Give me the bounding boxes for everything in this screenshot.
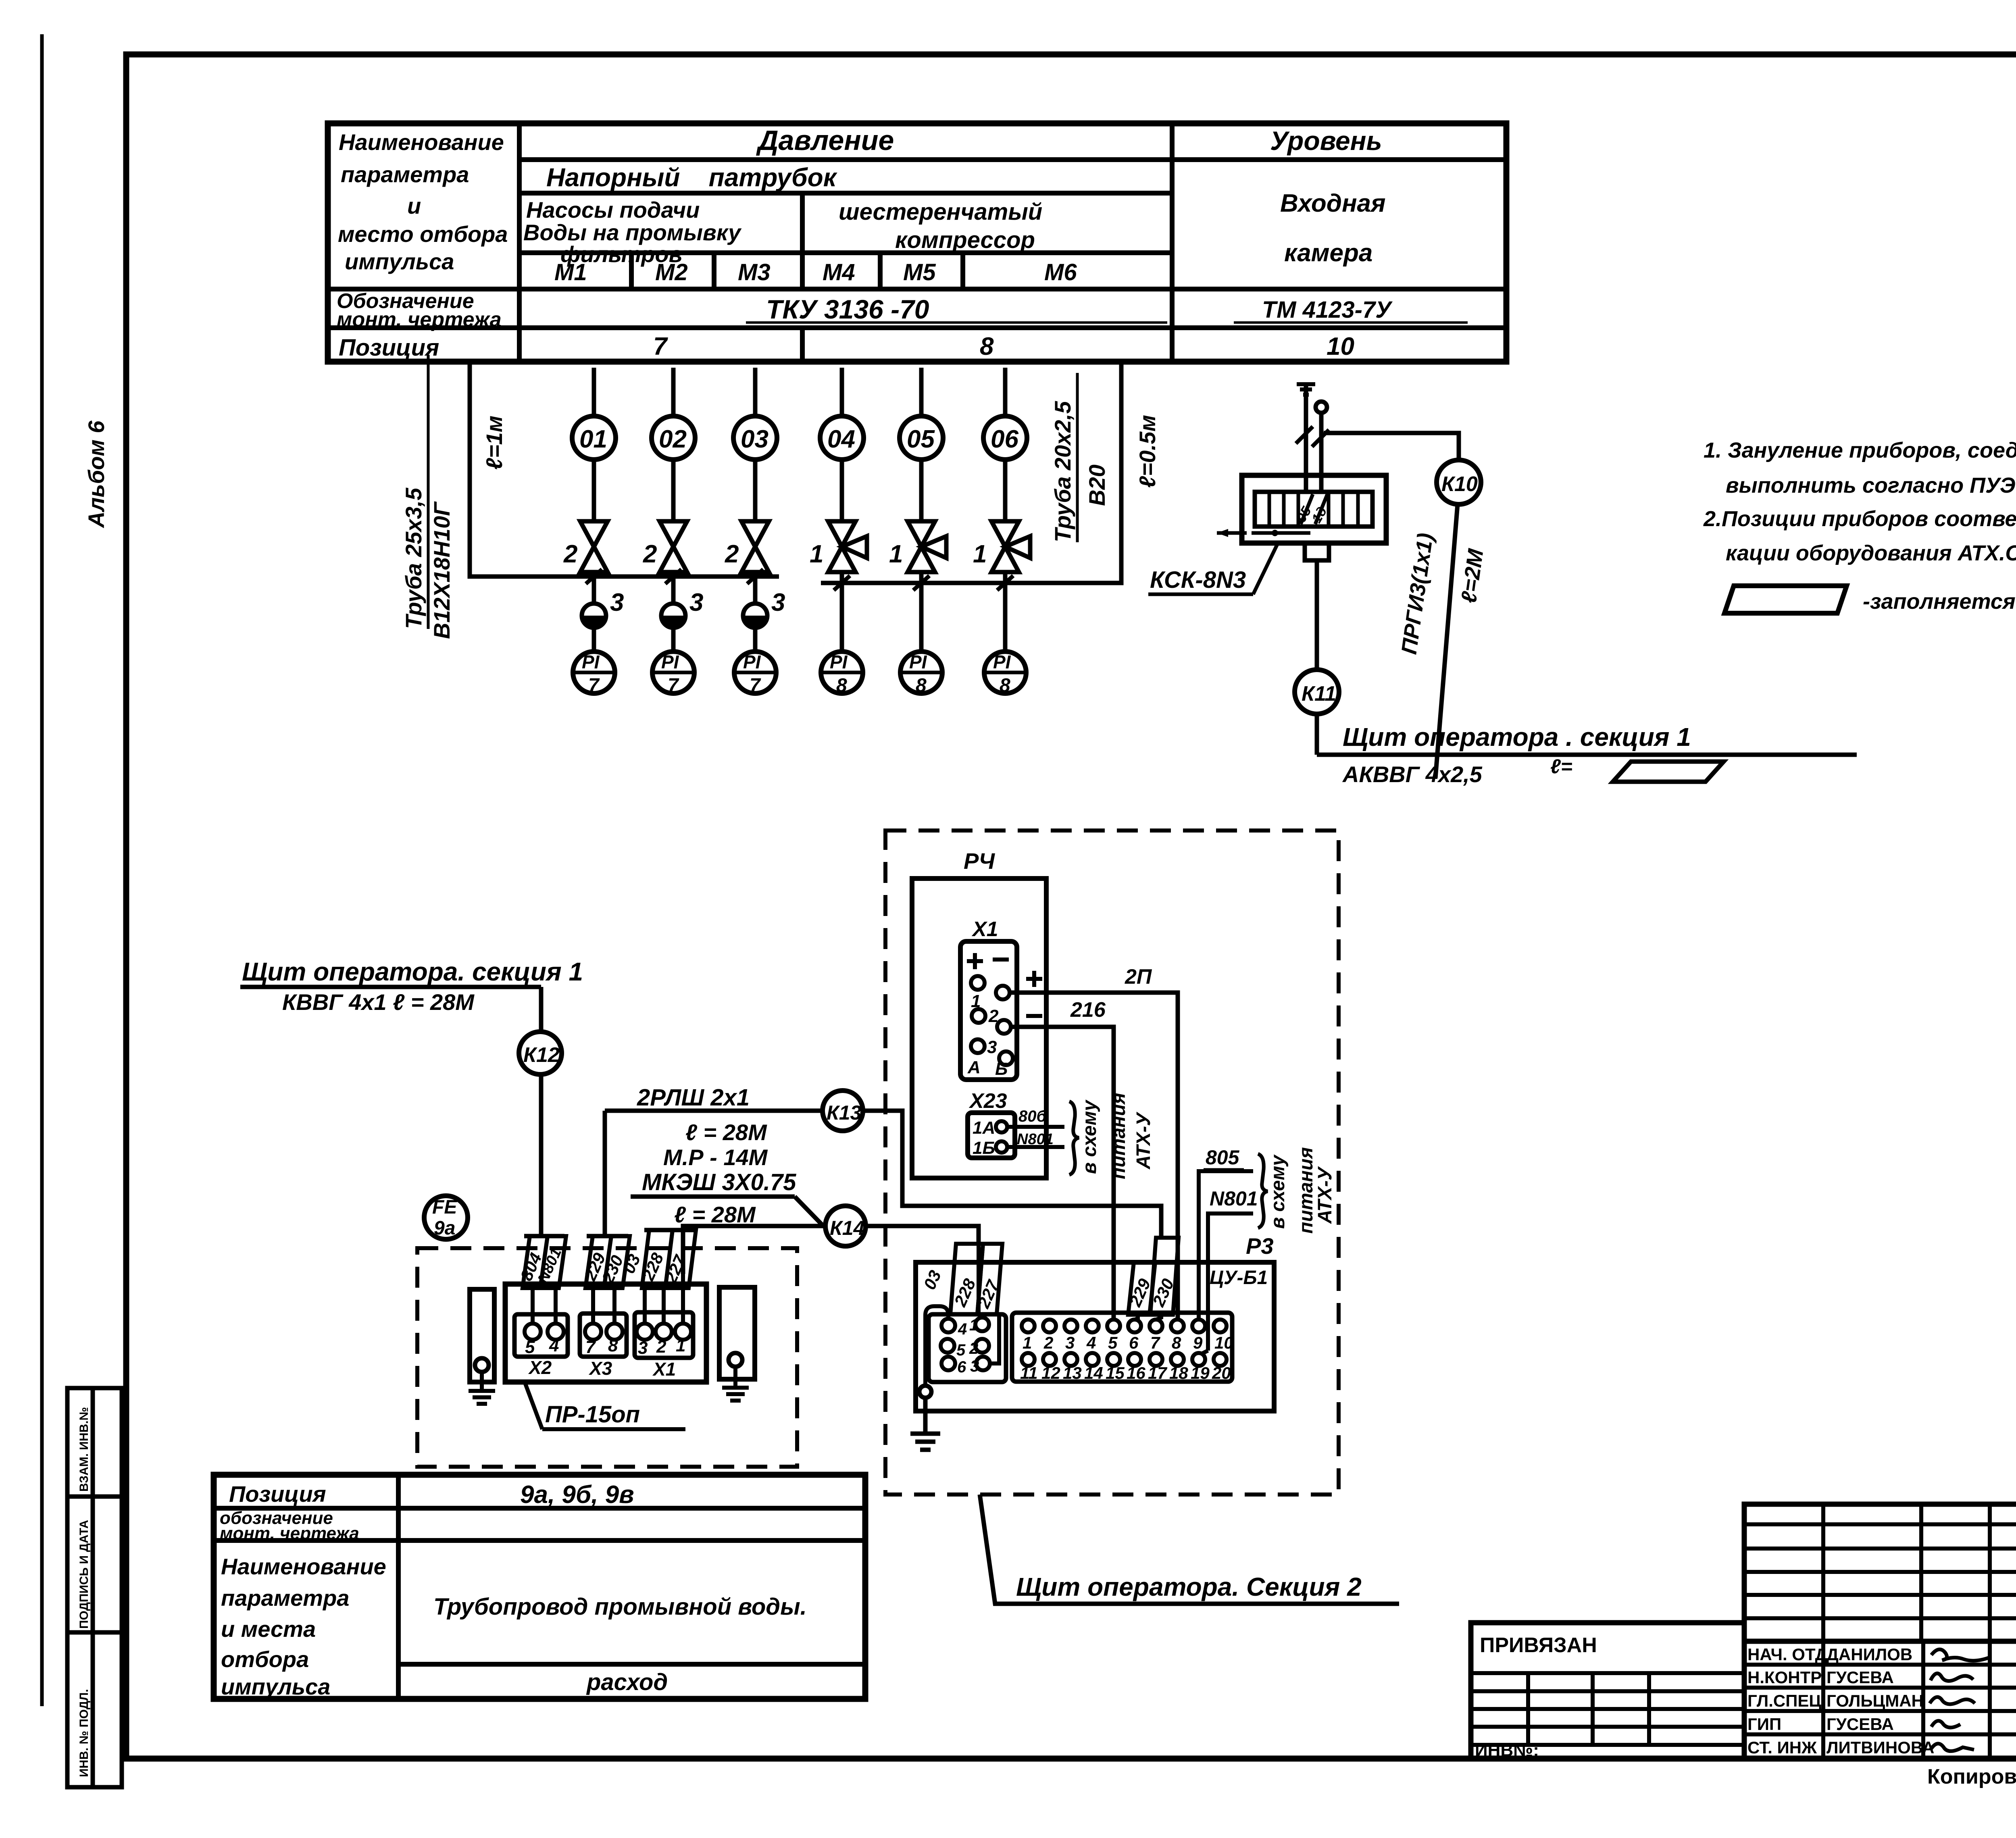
svg-text:216: 216 [1070, 998, 1106, 1022]
right tab ground lead [733, 1367, 737, 1388]
margin stamp boxes [67, 1388, 122, 1787]
junction tick on channel 05 [913, 576, 929, 590]
svg-text:Наименование: Наименование [339, 129, 504, 155]
svg-text:М4: М4 [823, 259, 855, 285]
svg-text:3: 3 [610, 589, 624, 616]
X1 pin out b [999, 1051, 1013, 1065]
instrument circle 03 [733, 416, 777, 460]
wire label 229 (PR side) [580, 1236, 611, 1288]
svg-text:8: 8 [608, 1336, 618, 1355]
wire 229 to X3:7 [591, 1288, 595, 1324]
R3 pin 15 [1107, 1353, 1120, 1366]
RCh unit box [912, 878, 1046, 1178]
R3 pin 6 [1128, 1320, 1141, 1332]
wire N801 to X2:4 [554, 1288, 558, 1324]
svg-text:1: 1 [810, 540, 823, 568]
svg-text:9а: 9а [434, 1218, 455, 1239]
MKESh leader to K14 [795, 1197, 823, 1226]
R3 pin 7 [1150, 1320, 1162, 1332]
wire 2P: X1+ to R3 pin8 [1010, 993, 1178, 1320]
svg-text:ГУСЕВА: ГУСЕВА [1826, 1668, 1894, 1687]
instrument circle 06 [983, 416, 1027, 460]
wire: 02 valve to collector [671, 572, 676, 577]
wire 227 to X1:2 [662, 1288, 666, 1324]
wire: 03 circle to valve [753, 460, 758, 521]
wire: sensor lead into box [1319, 413, 1324, 492]
R3 pin 13 [1064, 1353, 1077, 1366]
svg-text:монт. чертежа: монт. чертежа [220, 1524, 359, 1543]
svg-text:9а, 9б, 9в: 9а, 9б, 9в [520, 1481, 634, 1509]
svg-text:АТХ-У: АТХ-У [1314, 1166, 1336, 1224]
svg-text:-заполняется при привязке прое: -заполняется при привязке проекта. [1863, 589, 2016, 614]
wire 228 to terminal 1 [980, 1314, 982, 1318]
wire: K11 to operator panel line [1315, 714, 1319, 755]
R3 left terminal 1 [975, 1318, 989, 1331]
svg-text:N801: N801 [1017, 1131, 1054, 1148]
valve (3-way) on channel 05 [908, 521, 946, 572]
header col text [338, 129, 508, 274]
cable marker K12 [519, 1032, 562, 1074]
wire: K13 right to R3 [863, 1111, 1161, 1238]
wire 805 from pin9 [1199, 1171, 1253, 1320]
svg-text:8: 8 [1000, 675, 1010, 696]
svg-text:1А: 1А [973, 1118, 995, 1138]
bottom table row line 3 (right col only) [398, 1662, 865, 1667]
sampling device (half-filled circle) channel 02 [661, 604, 685, 628]
revision table grid [1744, 1504, 2016, 1641]
pressure indicator PI 7 channel 03 [734, 652, 776, 696]
wire 228 to X1:3 [643, 1288, 647, 1324]
wire label 229 (R3 side) [1125, 1262, 1155, 1315]
cable marker K10 [1437, 460, 1481, 504]
legend parallelogram [1724, 586, 1847, 613]
valve (3-way) on channel 06 [991, 521, 1030, 572]
svg-text:М2: М2 [655, 259, 688, 285]
svg-text:04: 04 [827, 425, 855, 453]
svg-text:ПОДПИСЬ И ДАТА: ПОДПИСЬ И ДАТА [77, 1520, 91, 1629]
TKU value underline [746, 321, 1167, 324]
sheet outer border left [40, 34, 44, 1706]
svg-text:15: 15 [1106, 1363, 1125, 1382]
ground symbol above KCK box [1297, 384, 1315, 395]
wire: link to K10 [1324, 433, 1459, 460]
bottom table column divider [396, 1475, 401, 1699]
svg-text:ГЛ.СПЕЦ: ГЛ.СПЕЦ [1747, 1691, 1821, 1710]
wire 805 label underline [1204, 1168, 1244, 1172]
parameter table outer box [328, 123, 1506, 362]
svg-text:ТМ 4123-7У: ТМ 4123-7У [1262, 297, 1393, 323]
X1 terminal 2 [656, 1324, 672, 1340]
wire 229 to pin6 [1135, 1315, 1138, 1320]
X2 terminal 4 [548, 1324, 564, 1340]
R3 pin 9 [1192, 1320, 1205, 1332]
X1 pin1 [971, 976, 985, 990]
wire 03 to X1:1 [681, 1274, 685, 1324]
svg-text:в схему: в схему [1079, 1099, 1100, 1174]
svg-text:4: 4 [958, 1320, 967, 1338]
svg-text:Давление: Давление [756, 125, 894, 156]
pressure indicator PI 8 channel 06 [984, 652, 1026, 696]
svg-text:М.Р - 14М: М.Р - 14М [663, 1145, 768, 1170]
wire: channel 04 drop from table [840, 368, 844, 416]
MKESh underline [631, 1195, 795, 1199]
svg-text:ЛИТВИНОВА: ЛИТВИНОВА [1826, 1738, 1934, 1757]
svg-text:ℓ=0.5м: ℓ=0.5м [1135, 415, 1160, 488]
svg-text:3: 3 [638, 1338, 648, 1358]
svg-text:18: 18 [1169, 1363, 1188, 1382]
label pair top tick 228/227 [644, 1228, 695, 1232]
wire: 05 circle to valve [919, 460, 924, 521]
svg-text:М5: М5 [903, 259, 936, 285]
svg-text:РI: РI [743, 652, 761, 672]
svg-text:Х2: Х2 [528, 1357, 552, 1378]
wire: 05 collector to PI [919, 583, 924, 652]
table row line above M row [519, 250, 1172, 255]
R3 unit box [916, 1262, 1274, 1411]
svg-text:16: 16 [1127, 1363, 1145, 1382]
svg-text:5: 5 [525, 1337, 535, 1357]
wire: channel 02 drop from table [671, 368, 676, 416]
KCK cable gland [1305, 543, 1329, 560]
wire: line to K12 [539, 987, 544, 1032]
svg-text:2: 2 [1043, 1333, 1053, 1352]
svg-text:9: 9 [1193, 1333, 1203, 1352]
svg-text:FE: FE [432, 1197, 458, 1218]
wire 230 to X3:8 [612, 1288, 616, 1324]
terminal group X3 [580, 1313, 627, 1357]
svg-text:ГУСЕВА: ГУСЕВА [1826, 1715, 1894, 1734]
KCK left pointer arrow [1217, 531, 1247, 535]
wire: 06 valve to collector [1003, 572, 1008, 583]
terminal group X2 [514, 1314, 568, 1357]
svg-text:питания: питания [1295, 1147, 1317, 1234]
svg-text:Насосы подачи: Насосы подачи [526, 197, 700, 223]
svg-text:место отбора: место отбора [338, 221, 508, 247]
R3 20-pin terminal block [1012, 1313, 1232, 1382]
pressure indicator PI 7 channel 01 [573, 652, 615, 696]
svg-text:05: 05 [907, 425, 935, 453]
svg-text:ТКУ 3136 -70: ТКУ 3136 -70 [766, 294, 929, 324]
wire: channel 03 drop from table [753, 368, 758, 416]
instrument circle 01 [572, 416, 616, 460]
R3 pin 17 [1150, 1353, 1162, 1366]
R3 left terminal 4 [941, 1319, 955, 1332]
wire: 01 collector to sampler [592, 577, 596, 604]
junction tick on channel 01 [586, 569, 602, 584]
svg-text:8: 8 [980, 333, 994, 360]
R3 pin 11 [1022, 1353, 1035, 1366]
svg-text:8: 8 [916, 675, 927, 696]
svg-text:выполнить согласно ПУЭ-85 §1-7: выполнить согласно ПУЭ-85 §1-7-46. [1726, 473, 2016, 497]
right tab ground terminal [729, 1353, 742, 1367]
wire 80b from X23 [1007, 1125, 1064, 1129]
svg-text:Входная: Входная [1280, 189, 1386, 217]
svg-text:М1: М1 [554, 259, 587, 285]
svg-text:ℓ = 28М: ℓ = 28М [674, 1202, 756, 1227]
svg-text:ГОЛЬЦМАН: ГОЛЬЦМАН [1826, 1691, 1924, 1710]
svg-text:АКВВГ 4х2,5: АКВВГ 4х2,5 [1342, 762, 1483, 787]
svg-text:КВВГ 4х1 ℓ = 28М: КВВГ 4х1 ℓ = 28М [282, 989, 475, 1015]
KCK-8N3 terminal box body [1242, 475, 1386, 543]
wire: 2RLSh down to X3 labels [603, 1111, 607, 1236]
svg-text:монт. чертежа: монт. чертежа [337, 308, 502, 331]
placeholder parallelogram [1613, 762, 1724, 782]
svg-text:РI: РI [909, 652, 927, 672]
valve (3-way) on channel 04 [828, 521, 867, 572]
pipe label fraction line left [427, 355, 430, 629]
cable marker K13 [823, 1091, 863, 1131]
svg-text:Н.КОНТР: Н.КОНТР [1747, 1668, 1822, 1687]
svg-text:Б: Б [995, 1059, 1008, 1079]
KCK used-terminal hatches [1301, 494, 1313, 524]
wire: 03 valve to collector [753, 572, 758, 577]
table row line under headers [519, 157, 1506, 162]
svg-text:2: 2 [563, 540, 577, 568]
X1 pin3 [971, 1039, 985, 1053]
wire label 227 (R3 side) [974, 1244, 1003, 1314]
svg-text:1. Зануление приборов, соедини: 1. Зануление приборов, соединительных ко… [1704, 438, 2016, 462]
svg-text:4: 4 [1086, 1333, 1096, 1352]
wire label 804 [516, 1236, 548, 1288]
svg-text:К14: К14 [830, 1217, 864, 1239]
KCK inner terminal strip [1255, 492, 1372, 527]
svg-text:10: 10 [1327, 333, 1354, 360]
wire: channel 06 drop from table [1003, 368, 1008, 416]
svg-text:АТХ-У: АТХ-У [1133, 1112, 1154, 1170]
svg-text:ВЗАМ. ИНВ.№: ВЗАМ. ИНВ.№ [77, 1407, 91, 1492]
svg-text:ДАНИЛОВ: ДАНИЛОВ [1826, 1645, 1912, 1664]
PR-15op right mounting tab [719, 1287, 755, 1379]
wire: 01 valve to collector [592, 572, 596, 577]
wire N801 from pin19 [1208, 1214, 1253, 1351]
wire: K10 down (slanted cable run) [1435, 504, 1458, 778]
wire N801 bend to pin19 [1202, 1351, 1208, 1354]
svg-text:2: 2 [969, 1340, 978, 1357]
R3 ground terminal circle [919, 1386, 931, 1398]
svg-text:6: 6 [957, 1358, 966, 1376]
R3 ground lead [923, 1398, 928, 1434]
R3 pin 5 [1107, 1320, 1120, 1332]
X1 pin out - [997, 1020, 1011, 1034]
svg-text:РI: РI [661, 652, 679, 672]
wire label 228 (R3 side) [950, 1244, 983, 1314]
wire: channel 05 drop from table [919, 368, 924, 416]
R3 left terminal 2 [975, 1339, 989, 1353]
pressure indicator PI 8 channel 05 [900, 652, 942, 696]
sampling device (half-filled circle) channel 03 [743, 604, 767, 628]
R3 pin 4 [1086, 1320, 1099, 1332]
svg-text:М3: М3 [738, 259, 771, 285]
svg-text:3: 3 [1065, 1333, 1075, 1352]
svg-text:7: 7 [588, 675, 600, 696]
svg-text:1Б: 1Б [973, 1138, 995, 1158]
X23 pin B [996, 1141, 1007, 1153]
wire: sampler to PI [671, 627, 676, 652]
svg-text:Альбом 6: Альбом 6 [83, 420, 109, 529]
2RLSh underline / wire to K13 [605, 1109, 823, 1113]
wire: 05 valve to collector [919, 572, 924, 583]
svg-text:ИНВ. № ПОДЛ.: ИНВ. № ПОДЛ. [77, 1689, 91, 1777]
plus sign outside [1026, 971, 1042, 987]
KCK label leader [1253, 544, 1277, 594]
KCK bottom detail line with dot [1252, 531, 1310, 535]
privyazan grid [1471, 1673, 1744, 1745]
svg-text:Р3: Р3 [1246, 1233, 1274, 1259]
wire: K14 via 228 box divider [977, 1244, 981, 1314]
R3 pin 18 [1171, 1353, 1184, 1366]
R3 pin 12 [1043, 1353, 1056, 1366]
terminal group X1 [635, 1312, 693, 1358]
svg-text:Щит оператора. Секция 2: Щит оператора. Секция 2 [1016, 1572, 1362, 1601]
pipe label right (rotated) [1050, 401, 1110, 542]
R3 pin 16 [1128, 1353, 1141, 1366]
svg-text:02: 02 [659, 425, 687, 453]
svg-text:Труба 20х2,5: Труба 20х2,5 [1050, 401, 1075, 542]
wire: 06 collector to PI [1003, 583, 1008, 652]
svg-text:5: 5 [956, 1341, 966, 1359]
svg-text:2РЛШ 2х1: 2РЛШ 2х1 [637, 1084, 750, 1111]
svg-text:13: 13 [1063, 1363, 1082, 1382]
pipe label fraction line right [1076, 373, 1079, 542]
R3 pin 10 [1214, 1320, 1227, 1332]
svg-text:расход: расход [586, 1669, 668, 1695]
svg-text:В12Х18Н10Г: В12Х18Н10Г [429, 501, 454, 639]
svg-text:КСК-8N3: КСК-8N3 [1150, 567, 1246, 593]
svg-text:14: 14 [1084, 1363, 1103, 1382]
svg-text:1: 1 [676, 1336, 685, 1355]
svg-text:К12: К12 [523, 1043, 560, 1067]
junction tick on channel 06 [997, 576, 1013, 590]
R3 left terminal 5 [941, 1339, 954, 1353]
wire: K14 left to PR-15op X1 [683, 1226, 825, 1274]
wire label 230 (R3 side) [1149, 1238, 1179, 1315]
table column line (left header col) [517, 123, 522, 362]
X23 pin A [996, 1121, 1007, 1132]
svg-text:7: 7 [1150, 1333, 1160, 1352]
R3 pin 14 [1086, 1353, 1099, 1366]
svg-text:МКЭШ 3Х0.75: МКЭШ 3Х0.75 [642, 1169, 796, 1195]
svg-text:ГИП: ГИП [1747, 1715, 1781, 1734]
svg-text:Трубопровод промывной воды.: Трубопровод промывной воды. [433, 1594, 807, 1620]
svg-text:Позиция: Позиция [339, 335, 439, 361]
table row line under M row [328, 287, 1506, 291]
X1 pin2 [972, 1009, 985, 1023]
svg-text:РI: РI [830, 652, 848, 672]
svg-text:М6: М6 [1044, 259, 1077, 285]
brace X23 to ATK-U [1069, 1101, 1079, 1175]
svg-text:10: 10 [1214, 1333, 1233, 1352]
svg-text:К13: К13 [827, 1101, 862, 1124]
svg-text:7: 7 [585, 1337, 596, 1357]
bottom table outer box [214, 1475, 865, 1699]
svg-text:8: 8 [1172, 1333, 1181, 1352]
operator panel section1 (left) line [240, 985, 541, 989]
svg-text:РI: РI [993, 652, 1011, 672]
wire: sampler to PI [592, 627, 596, 652]
label pair top tick 229/230 [587, 1234, 628, 1239]
wire label 230 (PR side) [598, 1236, 630, 1288]
wire 227 to terminal 3 [991, 1314, 999, 1363]
label pair top tick 804/N801 [524, 1234, 564, 1239]
pressure indicator PI 8 channel 04 [821, 652, 863, 696]
svg-text:4: 4 [549, 1336, 559, 1355]
pressure indicator PI 7 channel 02 [652, 652, 694, 696]
wire N801 from X23 [1007, 1145, 1064, 1149]
wire 804 to X2:5 [531, 1288, 535, 1324]
svg-text:N801: N801 [1210, 1187, 1258, 1210]
X1 terminal 1 [675, 1324, 691, 1340]
R3 left terminal 3 [976, 1357, 990, 1370]
svg-text:7: 7 [668, 675, 679, 696]
svg-text:19: 19 [1191, 1363, 1210, 1382]
svg-text:К10: К10 [1441, 473, 1478, 496]
svg-text:5: 5 [1108, 1333, 1118, 1352]
valve (2-port) on channel 01 [580, 521, 608, 572]
svg-text:6: 6 [1129, 1333, 1139, 1352]
svg-text:ℓ=: ℓ= [1550, 755, 1572, 778]
wire: sampler to PI [753, 627, 758, 652]
junction tick on channel 04 [834, 576, 850, 590]
svg-text:ЦУ-Б1: ЦУ-Б1 [1210, 1267, 1268, 1288]
svg-text:ℓ=1м: ℓ=1м [481, 416, 507, 470]
X1 minus mark [993, 958, 1009, 962]
valve (2-port) on channel 03 [741, 521, 769, 572]
svg-text:питания: питания [1108, 1093, 1129, 1179]
valve (2-port) on channel 02 [660, 521, 687, 572]
svg-text:отбора: отбора [221, 1646, 309, 1672]
cable marker K11 [1295, 670, 1339, 714]
impulse line bracket right [821, 359, 1121, 583]
ground symbol left [469, 1391, 495, 1404]
svg-text:компрессор: компрессор [895, 227, 1035, 253]
svg-text:2: 2 [656, 1337, 666, 1357]
X1 plus mark [967, 953, 983, 969]
sampling device (half-filled circle) channel 01 [582, 604, 606, 628]
bottom table row line 1 [214, 1506, 865, 1511]
svg-text:80б: 80б [1018, 1107, 1047, 1125]
svg-text:В20: В20 [1084, 464, 1110, 506]
X1 terminal 3 [637, 1324, 653, 1340]
X2 terminal 5 [525, 1324, 541, 1340]
wire: 03 collector to sampler [753, 577, 758, 604]
wire: 02 circle to valve [671, 460, 676, 521]
svg-text:1: 1 [1023, 1333, 1032, 1352]
svg-text:параметра: параметра [221, 1585, 349, 1611]
svg-text:ℓ = 28М: ℓ = 28М [685, 1120, 767, 1145]
svg-text:Наименование: Наименование [221, 1554, 386, 1579]
nasosy cell [523, 197, 742, 267]
PR-15op main box [505, 1284, 706, 1382]
KCK label underline [1148, 593, 1253, 596]
operator panel section 2 leader [980, 1495, 1399, 1604]
svg-text:импульса: импульса [221, 1674, 330, 1699]
wire: box to K11 [1315, 560, 1319, 670]
svg-text:и: и [407, 193, 421, 219]
collector left segment [470, 575, 779, 579]
svg-text:3: 3 [689, 589, 703, 616]
svg-text:2: 2 [643, 540, 657, 568]
impulse line bracket left [470, 362, 779, 577]
svg-text:Уровень: Уровень [1270, 126, 1382, 156]
svg-text:7: 7 [750, 675, 761, 696]
svg-text:ПР-15оп: ПР-15оп [545, 1401, 640, 1428]
wire: K12 down to 804/N801 labels [539, 1074, 544, 1236]
cable end circle [1316, 402, 1327, 413]
svg-text:17: 17 [1148, 1363, 1167, 1382]
M column dividers [631, 193, 963, 362]
svg-text:2П: 2П [1125, 965, 1152, 989]
minus sign outside [1026, 1014, 1042, 1018]
